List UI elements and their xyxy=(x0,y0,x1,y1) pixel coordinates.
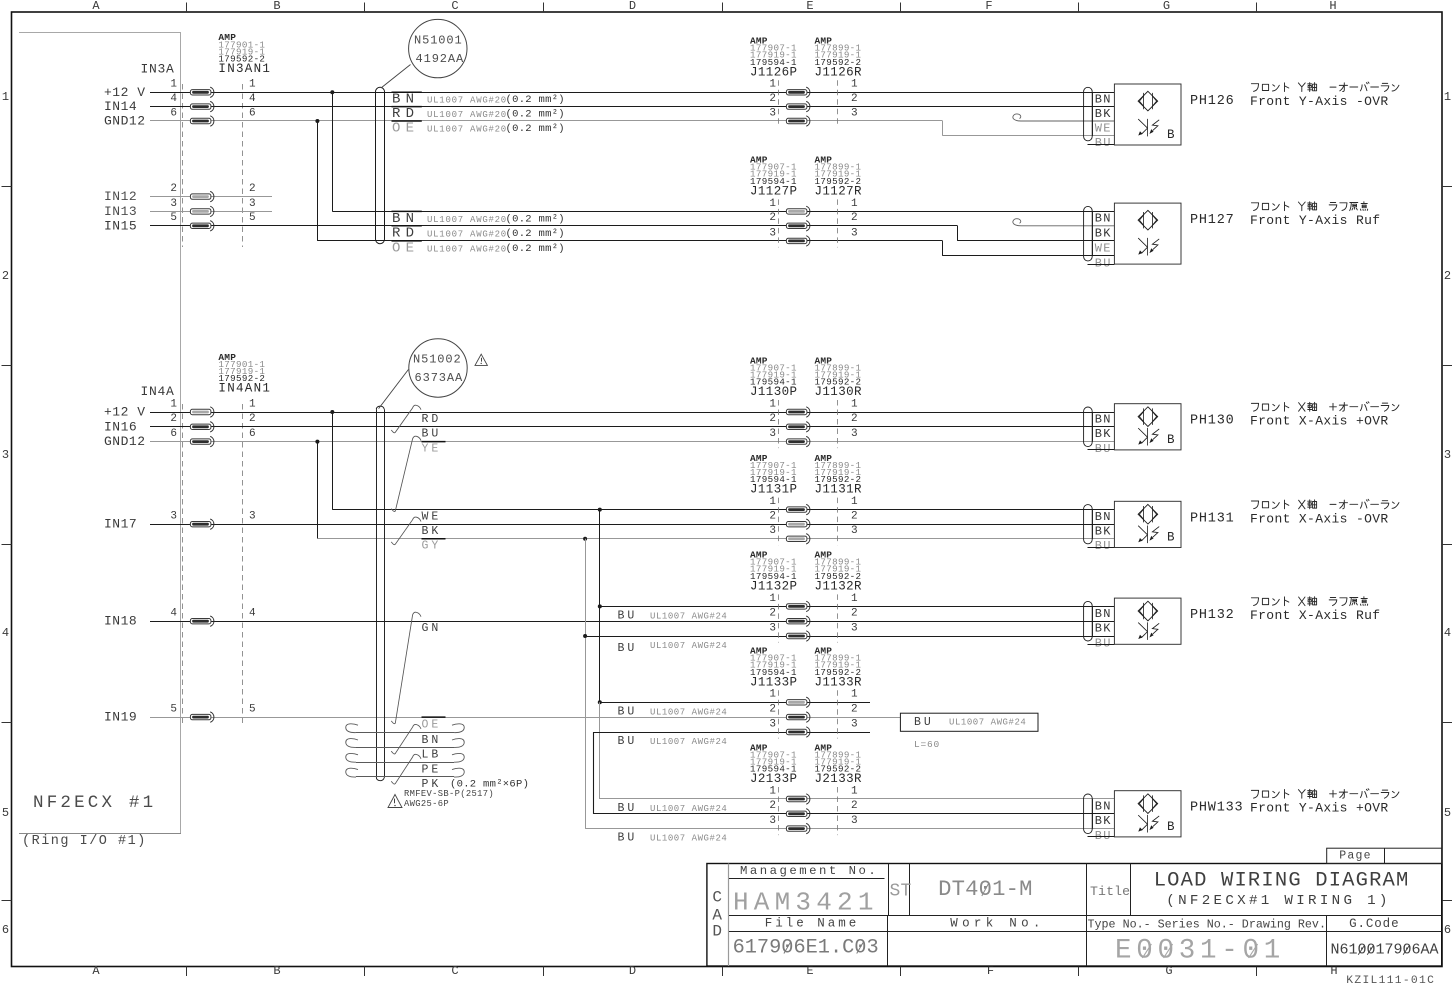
svg-text:2: 2 xyxy=(769,511,776,523)
svg-text:IN14: IN14 xyxy=(104,99,137,114)
svg-text:3: 3 xyxy=(851,815,858,827)
svg-text:1: 1 xyxy=(2,90,9,104)
wire spec UL1007 AWG#20(0.2 mm2) xyxy=(427,228,565,240)
svg-text:UL1007 AWG#24: UL1007 AWG#24 xyxy=(949,718,1026,728)
svg-text:C: C xyxy=(712,889,722,907)
vertical feeder to J2133 pin1 (grey) xyxy=(600,702,1115,799)
connector mating line (dashed) xyxy=(779,787,838,835)
svg-text:Title: Title xyxy=(1090,884,1130,899)
cable breakout zigzag LB-PK xyxy=(391,754,421,784)
wire IN19 pin5 (OE, grey) xyxy=(150,717,900,719)
svg-text:1: 1 xyxy=(851,198,858,210)
svg-text:2: 2 xyxy=(249,413,256,425)
svg-text:BU: BU xyxy=(914,716,934,729)
wire J1132 pin1 (BU) xyxy=(600,606,1115,608)
svg-text:1: 1 xyxy=(769,785,776,797)
svg-text:3: 3 xyxy=(851,107,858,119)
wire J2133 pin3 (grey) xyxy=(585,828,1114,830)
svg-text:UL1007 AWG#24: UL1007 AWG#24 xyxy=(650,707,727,717)
wire +12V IN4A pin1 (RD) xyxy=(150,412,1114,414)
vertical feeder GY to J1132 pin3 / J2133 pin3 (grey) xyxy=(585,539,587,829)
svg-text:A: A xyxy=(92,0,100,13)
connector contact pins xyxy=(786,504,810,544)
svg-text:GY: GY xyxy=(422,540,442,553)
svg-text:BK: BK xyxy=(1095,622,1112,636)
svg-text:NF2ECX #1: NF2ECX #1 xyxy=(33,793,156,813)
photo sensor PH127 body xyxy=(1114,203,1181,264)
svg-text:RMFEV-SB-P(2517): RMFEV-SB-P(2517) xyxy=(404,789,494,799)
svg-text:J1126R: J1126R xyxy=(815,65,863,79)
wire GND12 branch down to J1131 GY (grey) xyxy=(317,442,1114,539)
svg-text:2: 2 xyxy=(769,608,776,620)
svg-text:2: 2 xyxy=(249,183,256,195)
cable sheath oval xyxy=(1084,601,1093,641)
svg-text:3: 3 xyxy=(769,815,776,827)
svg-text:1: 1 xyxy=(249,398,256,410)
cable N51001 sheath oval xyxy=(376,87,385,243)
cable breakout zigzag BU-WE xyxy=(391,436,421,511)
junction +12V to PH127 branch xyxy=(330,90,334,94)
connector mating line (dashed) xyxy=(779,199,838,247)
svg-text:3: 3 xyxy=(851,428,858,440)
svg-text:HAM3421: HAM3421 xyxy=(733,888,879,918)
svg-text:4: 4 xyxy=(170,93,177,105)
svg-text:2: 2 xyxy=(769,212,776,224)
pigtail spec box BU UL1007 AWG#24 L=60 xyxy=(900,713,1038,750)
svg-text:C: C xyxy=(451,964,458,978)
junction +12V to WE branch xyxy=(330,410,334,414)
sensor PH132 proximity diamond symbol xyxy=(1138,601,1158,621)
svg-text:Front Y-Axis +OVR: Front Y-Axis +OVR xyxy=(1250,801,1389,816)
svg-text:3: 3 xyxy=(769,718,776,730)
svg-text:BU: BU xyxy=(618,802,638,815)
svg-text:BN: BN xyxy=(392,211,419,227)
svg-text:6: 6 xyxy=(249,107,256,119)
junction feeder to J1132 pin1 xyxy=(598,604,602,608)
svg-text:PH127: PH127 xyxy=(1190,213,1235,228)
svg-text:1: 1 xyxy=(851,79,858,91)
svg-text:B: B xyxy=(1167,531,1175,545)
svg-text:3: 3 xyxy=(249,198,256,210)
connector mating line (dashed) xyxy=(779,400,838,448)
svg-text:2: 2 xyxy=(851,212,858,224)
wire color cell labels xyxy=(1088,799,1115,843)
cable sheath oval xyxy=(1084,407,1093,447)
cable sheath oval xyxy=(1084,206,1093,261)
svg-text:1: 1 xyxy=(769,79,776,91)
svg-text:2: 2 xyxy=(769,413,776,425)
svg-text:(NF2ECX#1 WIRING 1): (NF2ECX#1 WIRING 1) xyxy=(1166,893,1390,909)
svg-text:6: 6 xyxy=(170,107,177,119)
svg-text:617906E1.C03: 617906E1.C03 xyxy=(733,937,879,960)
svg-text:1: 1 xyxy=(851,785,858,797)
photo sensor PH132 body xyxy=(1114,598,1181,644)
svg-text:UL1007 AWG#20: UL1007 AWG#20 xyxy=(427,110,507,120)
pin numbers xyxy=(769,496,858,537)
wire GND12 pin6 (YE, grey) xyxy=(150,441,1114,443)
wire label OE (J1127 cable) xyxy=(392,241,422,257)
sensor PH130 proximity diamond symbol xyxy=(1138,407,1158,427)
connector J1131P part labels xyxy=(750,453,797,497)
svg-text:1: 1 xyxy=(851,593,858,605)
svg-text:3: 3 xyxy=(769,227,776,239)
svg-text:G.Code: G.Code xyxy=(1349,917,1399,931)
connector contact pins xyxy=(786,794,810,834)
svg-text:IN15: IN15 xyxy=(104,218,137,233)
svg-text:1: 1 xyxy=(170,398,177,410)
svg-text:J1127R: J1127R xyxy=(815,184,863,198)
page box xyxy=(1327,848,1442,863)
svg-text:J1131R: J1131R xyxy=(815,483,863,497)
warning triangle (cable note) xyxy=(475,354,487,365)
svg-text:IN19: IN19 xyxy=(104,710,137,725)
svg-text:3: 3 xyxy=(170,511,177,523)
svg-text:5: 5 xyxy=(170,704,177,716)
wire +12V branch down to J1127 BN xyxy=(332,92,1114,211)
svg-text:BK: BK xyxy=(1095,525,1112,539)
svg-text:BU: BU xyxy=(618,642,638,655)
svg-text:5: 5 xyxy=(249,212,256,224)
module NF2ECX #1 boundary xyxy=(19,32,181,834)
cable sheath oval xyxy=(1084,87,1093,141)
wire J1132 pin3 (BU) xyxy=(585,636,1114,638)
svg-text:Page: Page xyxy=(1339,850,1371,863)
svg-text:1: 1 xyxy=(769,593,776,605)
connector J2133P part labels xyxy=(750,742,797,786)
row tick marks xyxy=(2,187,1453,901)
svg-text:2: 2 xyxy=(2,269,9,283)
svg-text:BU: BU xyxy=(1095,256,1112,270)
value DT401-M xyxy=(938,877,1033,902)
svg-text:1: 1 xyxy=(170,79,177,91)
balloon N51002 leader line xyxy=(379,370,409,409)
svg-text:3: 3 xyxy=(769,622,776,634)
connector J1127R part labels xyxy=(815,155,863,199)
svg-text:4: 4 xyxy=(170,608,177,620)
svg-text:UL1007 AWG#24: UL1007 AWG#24 xyxy=(650,611,727,621)
svg-text:6373AA: 6373AA xyxy=(415,371,464,385)
svg-text:2: 2 xyxy=(851,413,858,425)
svg-text:BU: BU xyxy=(618,832,638,845)
svg-text:6: 6 xyxy=(2,923,9,937)
wire color cell labels xyxy=(1088,412,1115,456)
svg-text:IN3AN1: IN3AN1 xyxy=(218,62,271,76)
svg-text:2: 2 xyxy=(170,413,177,425)
svg-text:3: 3 xyxy=(170,198,177,210)
IN3A contact pins 2/3/5 xyxy=(190,191,214,231)
svg-text:F: F xyxy=(985,0,992,13)
wire IN14 pin4 xyxy=(150,106,1114,108)
svg-text:BU: BU xyxy=(1095,136,1112,150)
sensor PHW133 function label (Japanese) xyxy=(1251,789,1399,799)
wire label BU J2133 pin3 xyxy=(618,832,728,845)
svg-text:WE: WE xyxy=(1095,121,1112,135)
svg-text:BN: BN xyxy=(1095,92,1112,106)
sensor PH130 photo-transistor symbol xyxy=(1138,428,1159,446)
svg-text:3: 3 xyxy=(851,227,858,239)
wire spec UL1007 AWG#20(0.2 mm2) xyxy=(427,94,565,106)
svg-text:B: B xyxy=(1167,433,1175,447)
svg-text:6: 6 xyxy=(249,428,256,440)
g-code N610017906AA xyxy=(1331,942,1439,959)
pin numbers xyxy=(769,593,858,635)
svg-text:BU: BU xyxy=(1095,442,1112,456)
svg-text:D: D xyxy=(629,0,636,13)
spare wire coil PE xyxy=(356,762,454,764)
svg-text:UL1007 AWG#24: UL1007 AWG#24 xyxy=(650,804,727,814)
title block CAD marker xyxy=(712,889,722,941)
svg-text:BK: BK xyxy=(1095,107,1112,121)
column tick marks xyxy=(187,3,1257,977)
svg-text:LB: LB xyxy=(422,749,442,762)
pin numbers xyxy=(769,398,858,440)
svg-text:BN: BN xyxy=(422,734,442,747)
balloon N51002 / 6373AA xyxy=(409,339,467,397)
svg-text:OE: OE xyxy=(392,121,419,137)
wire IN17 pin3 (BK) xyxy=(150,524,1114,526)
wire label YE (N51002 cable) xyxy=(422,442,446,456)
sensor PH127 photo-transistor symbol xyxy=(1138,238,1159,256)
svg-text:BN: BN xyxy=(1095,510,1112,524)
svg-text:BN: BN xyxy=(1095,212,1112,226)
connector J1127P part labels xyxy=(750,155,797,199)
wire label BU J2133 pin1 xyxy=(618,802,728,815)
svg-text:LOAD WIRING DIAGRAM: LOAD WIRING DIAGRAM xyxy=(1154,870,1410,893)
svg-text:6: 6 xyxy=(1444,923,1451,937)
sensor PH131 photo-transistor symbol xyxy=(1138,526,1159,544)
IN4A pin numbers xyxy=(170,398,256,715)
connector IN4A part labels xyxy=(218,352,271,396)
connector mating line (dashed) xyxy=(779,594,838,642)
svg-text:UL1007 AWG#24: UL1007 AWG#24 xyxy=(650,834,727,844)
sensor PH131 function label (Japanese) xyxy=(1251,499,1399,509)
feeder J1133 pin3 to J2133 pin2 xyxy=(593,732,1114,814)
cable label PK (0.2 mm2 x 6P) xyxy=(422,778,530,791)
svg-text:Front Y-Axis Ruf: Front Y-Axis Ruf xyxy=(1250,213,1380,228)
svg-text:Work No.: Work No. xyxy=(950,916,1044,930)
svg-text:4: 4 xyxy=(249,608,256,620)
connector mating line (dashed) xyxy=(779,80,838,127)
svg-text:B: B xyxy=(1167,128,1175,142)
sensor PH132 function label (Japanese) xyxy=(1251,597,1367,606)
svg-text:BK: BK xyxy=(1095,226,1112,240)
svg-text:UL1007 AWG#20: UL1007 AWG#20 xyxy=(427,230,507,240)
svg-text:B: B xyxy=(273,0,280,13)
svg-text:PHW133: PHW133 xyxy=(1190,801,1243,816)
svg-text:4192AA: 4192AA xyxy=(416,52,465,66)
svg-text:3: 3 xyxy=(769,525,776,537)
wire color cell labels xyxy=(1088,510,1115,554)
connector J1133R part labels xyxy=(815,646,863,690)
svg-text:N51001: N51001 xyxy=(414,33,463,47)
wire label RD (J1127 cable) xyxy=(392,226,422,242)
connector J1131R part labels xyxy=(815,453,863,497)
svg-text:3: 3 xyxy=(769,107,776,119)
wire color cell labels xyxy=(1088,606,1115,650)
svg-text:D: D xyxy=(629,964,636,978)
svg-text:1: 1 xyxy=(769,198,776,210)
svg-text:A: A xyxy=(92,964,100,978)
svg-text:4: 4 xyxy=(249,93,256,105)
svg-text:BU: BU xyxy=(1095,539,1112,553)
pin numbers xyxy=(769,785,858,827)
svg-text:WE: WE xyxy=(1095,241,1112,255)
svg-text:PH131: PH131 xyxy=(1190,511,1235,526)
svg-text:BU: BU xyxy=(422,428,442,441)
svg-text:J1130P: J1130P xyxy=(750,385,797,399)
junction GY to J1132/J2133 branch xyxy=(583,537,587,541)
wire IN15 pin5 to J1127 RD/WE xyxy=(150,226,1114,241)
svg-text:BK: BK xyxy=(1095,814,1112,828)
svg-text:D: D xyxy=(712,923,722,941)
cable breakout zigzag RD group xyxy=(391,405,421,433)
connector J1132R part labels xyxy=(815,550,863,594)
sensor PH126 photo-transistor symbol xyxy=(1138,119,1159,137)
svg-text:OE: OE xyxy=(422,719,442,732)
svg-text:1: 1 xyxy=(1444,90,1451,104)
svg-text:B: B xyxy=(273,964,280,978)
connector mating line (dashed) xyxy=(779,498,838,546)
svg-text:KZIL111-01C: KZIL111-01C xyxy=(1346,975,1435,986)
svg-text:1: 1 xyxy=(249,79,256,91)
svg-text:J1130R: J1130R xyxy=(815,385,863,399)
junction GND12 to J1127 OE branch xyxy=(315,119,319,123)
title block outline xyxy=(707,864,1442,967)
spare wire coil BN xyxy=(356,732,454,734)
svg-text:2: 2 xyxy=(851,800,858,812)
svg-text:BN: BN xyxy=(1095,607,1112,621)
svg-text:(0.2 mm²): (0.2 mm²) xyxy=(506,243,565,255)
sensor PH131 proximity diamond symbol xyxy=(1138,504,1158,524)
svg-text:L=60: L=60 xyxy=(914,739,940,750)
connector contact pins xyxy=(786,206,810,246)
svg-text:2: 2 xyxy=(769,800,776,812)
svg-text:3: 3 xyxy=(851,718,858,730)
balloon N51001 / 4192AA xyxy=(409,19,467,77)
photo sensor PH130 body xyxy=(1114,404,1181,450)
svg-text:File Name: File Name xyxy=(765,916,860,930)
svg-text:GND12: GND12 xyxy=(104,114,146,129)
pin numbers xyxy=(769,79,858,120)
IN3A pin numbers 2/3/5 xyxy=(170,183,255,224)
svg-text:3: 3 xyxy=(249,511,256,523)
spare wire coil LB xyxy=(356,747,454,749)
sensor PHW133 proximity diamond symbol xyxy=(1138,794,1158,814)
svg-text:B: B xyxy=(1167,820,1175,834)
svg-text:PH130: PH130 xyxy=(1190,414,1235,429)
sensor PH127 function label (Japanese) xyxy=(1251,202,1367,211)
wire label OE (J1126 cable) xyxy=(392,121,422,137)
wire spec UL1007 AWG#20(0.2 mm2) xyxy=(427,109,565,121)
svg-text:Front Y-Axis -OVR: Front Y-Axis -OVR xyxy=(1250,94,1389,109)
svg-text:(Ring I/O #1): (Ring I/O #1) xyxy=(22,834,147,849)
svg-text:3: 3 xyxy=(851,525,858,537)
svg-text:1: 1 xyxy=(769,398,776,410)
svg-text:UL1007 AWG#20: UL1007 AWG#20 xyxy=(427,125,507,135)
wire IN18 pin4 (GN) xyxy=(150,621,1114,623)
svg-text:IN17: IN17 xyxy=(104,517,137,532)
wire spec UL1007 AWG#20(0.2 mm2) xyxy=(427,243,565,255)
svg-text:IN18: IN18 xyxy=(104,614,137,629)
sensor PH127 proximity diamond symbol xyxy=(1138,210,1158,230)
wire +12V branch down to J1131 WE xyxy=(332,412,1114,510)
wire color cell labels xyxy=(1088,211,1115,270)
svg-text:5: 5 xyxy=(2,806,9,820)
drawing number E0031-01 xyxy=(1115,936,1285,967)
photo sensor PH131 body xyxy=(1114,501,1181,547)
svg-text:2: 2 xyxy=(769,704,776,716)
svg-text:J1133P: J1133P xyxy=(750,675,797,689)
wire label BU J1132 pin3 xyxy=(618,641,728,655)
svg-text:3: 3 xyxy=(1444,448,1451,462)
svg-text:(0.2 mm²): (0.2 mm²) xyxy=(506,109,565,121)
svg-text:OE: OE xyxy=(392,241,419,257)
connector J1130P part labels xyxy=(750,355,797,399)
vertical feeder WE to J1132 pin1 / J1133 pin1 xyxy=(599,510,601,703)
cable N51002 sheath tube xyxy=(376,406,384,781)
sensor PH132 photo-transistor symbol xyxy=(1138,622,1159,640)
svg-text:1: 1 xyxy=(769,689,776,701)
connector contact pins xyxy=(786,407,810,447)
wire label BN (J1126 cable) xyxy=(392,92,422,108)
balloon leader line xyxy=(381,65,411,89)
svg-text:E0031-01: E0031-01 xyxy=(1115,936,1285,967)
svg-text:4: 4 xyxy=(2,626,9,640)
cable breakout zigzag GN-OE xyxy=(391,612,421,723)
unused wire hook (PH126 WE) xyxy=(1013,114,1115,121)
svg-text:BU: BU xyxy=(1095,636,1112,650)
IN4A contact pins xyxy=(190,407,214,723)
svg-text:2: 2 xyxy=(170,183,177,195)
svg-text:BU: BU xyxy=(618,705,638,718)
svg-text:J1126P: J1126P xyxy=(750,65,797,79)
svg-text:(0.2 mm²): (0.2 mm²) xyxy=(506,123,565,135)
svg-text:1: 1 xyxy=(851,398,858,410)
sensor PH126 function label (Japanese) xyxy=(1251,82,1399,92)
wire IN12 stub xyxy=(150,196,272,198)
svg-text:RD: RD xyxy=(422,413,442,426)
wire IN16 pin2 (BU) xyxy=(150,426,1114,428)
svg-text:G: G xyxy=(1163,0,1170,13)
svg-text:BU: BU xyxy=(618,609,638,622)
junction WE to J1132/J1133 branch xyxy=(598,508,602,512)
wire label BN (J1127 cable) xyxy=(392,211,422,227)
svg-text:GN: GN xyxy=(422,622,442,635)
svg-text:IN3A: IN3A xyxy=(141,62,175,77)
svg-text:1: 1 xyxy=(851,496,858,508)
svg-text:2: 2 xyxy=(851,511,858,523)
wire spec UL1007 AWG#20(0.2 mm2) xyxy=(427,213,565,225)
sensor PHW133 photo-transistor symbol xyxy=(1138,815,1159,833)
wire GND12 pin6 (grey) xyxy=(150,121,1114,136)
wire label BU J1133 pin3 xyxy=(618,735,728,748)
connector mating line (dashed) xyxy=(779,690,838,738)
connector contact pins xyxy=(786,87,810,126)
svg-text:IN16: IN16 xyxy=(104,419,137,434)
svg-text:J1132P: J1132P xyxy=(750,579,797,593)
spare wire coil PK xyxy=(356,776,454,778)
svg-text:J1131P: J1131P xyxy=(750,483,797,497)
connector J1126P part labels xyxy=(750,36,797,80)
svg-text:IN13: IN13 xyxy=(104,204,137,219)
svg-text:5: 5 xyxy=(170,212,177,224)
cable breakout zigzag WE-GY xyxy=(391,517,421,545)
svg-text:2: 2 xyxy=(769,93,776,105)
svg-text:+12 V: +12 V xyxy=(104,405,146,420)
IN3A contact pins 1/4/6 xyxy=(190,87,214,126)
svg-text:PH132: PH132 xyxy=(1190,608,1235,623)
connector contact pins xyxy=(786,697,810,737)
